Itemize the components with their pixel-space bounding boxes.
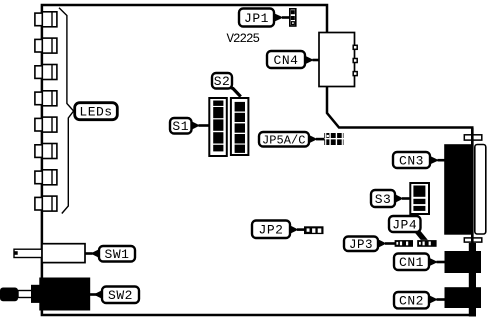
svg-text:CN2: CN2 <box>399 293 424 308</box>
D-sub top screw <box>464 135 482 140</box>
label S2 <box>212 73 241 97</box>
svg-text:SW1: SW1 <box>105 247 130 262</box>
DIP switch S2 <box>231 98 249 155</box>
svg-text:CN4: CN4 <box>274 53 299 68</box>
LED D6 <box>35 144 57 159</box>
label JP5A/C <box>259 132 325 147</box>
D-sub shell (CN3 connector shell) <box>475 145 486 235</box>
label CN1 <box>394 254 445 271</box>
LED D3 <box>35 65 57 80</box>
DIP switch S1 <box>209 98 227 156</box>
svg-text:CN3: CN3 <box>399 153 424 168</box>
svg-text:S2: S2 <box>214 74 231 89</box>
DIP switch S3 <box>410 183 429 214</box>
LED bracket <box>59 8 74 214</box>
connector CN4 <box>319 33 357 87</box>
label S3 <box>371 190 411 207</box>
svg-text:SW2: SW2 <box>108 288 133 303</box>
svg-text:V2225: V2225 <box>227 32 261 46</box>
connector CN2 <box>445 287 482 308</box>
switch SW1 <box>14 244 85 263</box>
label JP2 <box>252 221 305 239</box>
label CN3 <box>393 152 445 168</box>
LED D2 <box>35 38 57 53</box>
jumper JP4 <box>417 240 436 247</box>
svg-text:JP1: JP1 <box>244 11 269 26</box>
svg-text:JP2: JP2 <box>259 223 284 238</box>
svg-text:CN1: CN1 <box>399 255 424 270</box>
jumper block JP5A/C <box>324 133 343 145</box>
D-sub connector CN3 body <box>444 144 472 235</box>
jumper JP1 (3-pin header) <box>290 9 296 26</box>
label LEDs <box>75 103 118 120</box>
D-sub bottom screw <box>464 238 482 242</box>
label SW2 <box>90 287 140 304</box>
svg-text:S1: S1 <box>172 119 189 134</box>
LED D1 <box>35 12 57 27</box>
LED D8 <box>35 196 57 211</box>
svg-text:JP5A/C: JP5A/C <box>262 133 306 147</box>
svg-text:JP4: JP4 <box>392 217 417 232</box>
switch SW2 <box>0 278 90 311</box>
label S1 <box>170 118 209 134</box>
label CN2 <box>394 292 445 308</box>
jumper JP2 <box>304 226 324 234</box>
jumper JP3 <box>395 240 413 247</box>
label JP4 <box>389 216 428 240</box>
svg-text:LEDs: LEDs <box>79 105 112 120</box>
metal bracket bar <box>469 243 476 317</box>
LED D4 <box>35 91 57 106</box>
label SW1 <box>86 246 136 262</box>
label JP3 <box>344 237 396 252</box>
LED D7 <box>35 170 57 185</box>
label CN4 <box>267 51 320 68</box>
bracket line (right edge over screws) <box>471 128 474 245</box>
LED D5 <box>35 117 57 132</box>
label JP1 <box>239 9 290 27</box>
connector CN1 <box>445 251 482 273</box>
svg-text:S3: S3 <box>375 192 392 207</box>
svg-text:JP3: JP3 <box>349 238 373 252</box>
